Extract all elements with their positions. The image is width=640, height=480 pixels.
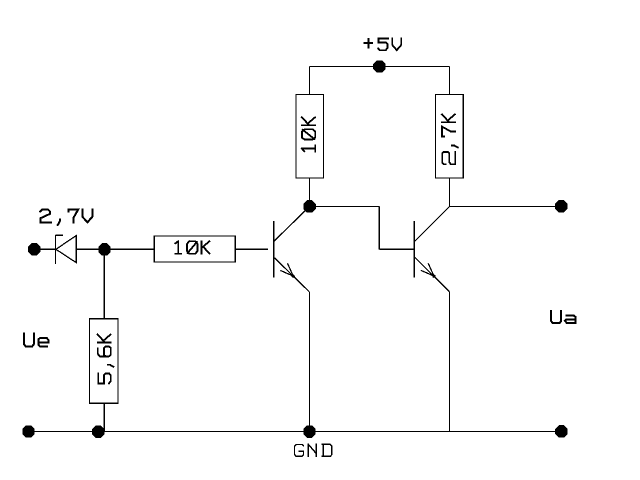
terminal Ua output	[555, 200, 567, 212]
wire Ue terminal to zener D1	[34, 248, 55, 250]
transistor T1 emitter lead	[274, 257, 310, 292]
wire +5V rail to R2	[448, 67, 450, 95]
zener diode D1 cathode bar	[55, 235, 57, 264]
transistor T1 collector lead	[274, 206, 310, 241]
wire T1 collector node to T2 base (vertical)	[378, 206, 380, 249]
transistor T1 base bar	[273, 221, 275, 278]
terminal GND left	[22, 425, 34, 437]
label D1 value 2,7V	[40, 209, 92, 225]
junction +5V node	[373, 60, 385, 72]
junction T1 collector node	[303, 200, 315, 212]
transistor T2 emitter lead	[414, 257, 449, 292]
resistor R1 10K body	[296, 94, 324, 178]
junction R4 on GND rail	[92, 426, 104, 438]
wire R2 to output node	[448, 178, 450, 207]
terminal Ue input	[28, 243, 40, 255]
resistor R4 5,6K body	[90, 319, 118, 404]
label Ue	[24, 333, 48, 346]
label Ua	[551, 311, 575, 323]
transistor T2 collector lead	[414, 207, 449, 242]
transistor T2 emitter arrow	[421, 263, 436, 278]
label R2 value 2,7K	[442, 114, 458, 164]
label +5V	[364, 39, 401, 51]
zener diode D1 cathode hook	[56, 234, 63, 236]
wire R1 to T1 collector node	[309, 178, 311, 202]
wire GND rail	[29, 431, 562, 433]
wire +5V rail to R1	[309, 67, 311, 95]
junction T1 emitter on GND rail	[303, 425, 315, 437]
wire output Ua	[449, 205, 561, 207]
terminal GND right	[555, 425, 567, 437]
junction D1/R3/R4 node	[98, 243, 110, 255]
wire R4 to GND rail	[103, 403, 105, 431]
zener diode D1 anode triangle	[56, 236, 76, 263]
label R1 value 10K	[302, 117, 315, 151]
label GND	[295, 444, 332, 456]
wire T2 base lead	[379, 248, 414, 250]
wire T1 collector node to T2 base (horizontal top)	[310, 205, 380, 207]
wire T2 emitter down to GND	[449, 292, 451, 432]
resistor R3 10K body	[154, 236, 235, 262]
resistor R2 2,7K body	[435, 94, 463, 178]
transistor T2 base bar	[413, 221, 415, 278]
wire +5V rail	[310, 66, 450, 68]
wire T1 emitter down to GND	[308, 292, 310, 432]
wire node to R4	[103, 249, 105, 318]
wire D1 to R3	[76, 248, 154, 250]
label R4 value 5,6K	[98, 335, 114, 384]
transistor T1 emitter arrow	[280, 263, 295, 278]
label R3 value 10K	[175, 241, 209, 253]
wire R3 to T1 base	[235, 248, 267, 250]
